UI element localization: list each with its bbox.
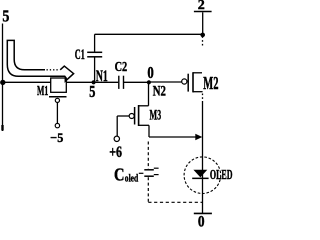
svg-text:M3: M3 — [150, 108, 162, 124]
svg-text:5: 5 — [89, 82, 95, 101]
svg-text:0: 0 — [198, 213, 205, 228]
svg-text:0: 0 — [147, 63, 153, 82]
svg-text:C1: C1 — [75, 47, 85, 63]
svg-text:5: 5 — [2, 6, 9, 25]
svg-text:oled: oled — [125, 172, 138, 184]
svg-text:C: C — [114, 164, 125, 184]
svg-text:+6: +6 — [109, 144, 122, 161]
svg-text:OLED: OLED — [210, 167, 233, 182]
svg-text:N2: N2 — [153, 83, 166, 99]
svg-text:2: 2 — [198, 0, 205, 13]
svg-text:M2: M2 — [203, 73, 218, 93]
svg-text:N1: N1 — [96, 68, 108, 85]
svg-text:M1: M1 — [37, 84, 48, 99]
svg-text:C2: C2 — [115, 59, 128, 74]
svg-text:−5: −5 — [50, 130, 63, 145]
